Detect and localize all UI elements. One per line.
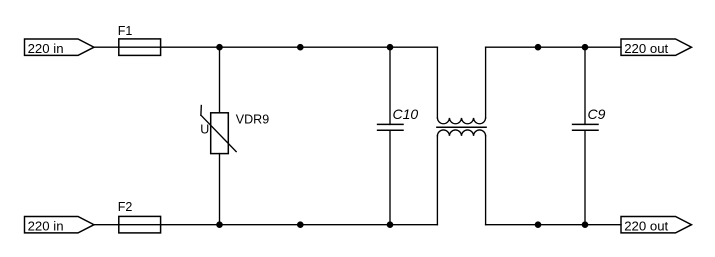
wire bottom right: joint to C9 junction xyxy=(538,224,585,226)
junction dot bottom right joint xyxy=(535,221,542,228)
wire bottom right: choke to joint xyxy=(486,224,538,226)
inductor top winding xyxy=(437,118,485,124)
junction dot top at C10 xyxy=(387,44,394,51)
wire: top winding left leg xyxy=(436,47,438,118)
wire top right: C9 junction to connector xyxy=(585,46,621,48)
capacitor C10 bottom plate xyxy=(378,129,403,131)
inductor bottom winding xyxy=(437,130,485,136)
wire top: mid joint to C10 junction xyxy=(299,46,390,48)
svg-text:220 out: 220 out xyxy=(624,218,668,233)
svg-text:C10: C10 xyxy=(393,106,419,122)
wire: bottom winding left leg xyxy=(436,136,438,225)
capacitor C9 top plate xyxy=(573,123,598,125)
wire: top wire down to C10 xyxy=(389,47,391,124)
connector "220 out" top-right xyxy=(621,39,692,56)
wire bottom: F2 to VDR junction xyxy=(161,224,220,226)
varistor VDR9 diagonal xyxy=(201,115,236,151)
varistor VDR9 body xyxy=(211,113,229,154)
wire top: connector to F1 xyxy=(94,46,119,48)
svg-text:C9: C9 xyxy=(588,106,606,122)
capacitor C9 xyxy=(573,47,606,225)
wire bottom: C10 junction to choke xyxy=(390,224,437,226)
fuse F1 xyxy=(118,24,161,56)
junction dot top at VDR9 xyxy=(216,44,223,51)
svg-text:F2: F2 xyxy=(118,200,133,214)
wire top: VDR junction to mid joint xyxy=(220,46,300,48)
wire bottom: VDR junction to mid joint xyxy=(220,224,300,226)
wire: top winding right leg xyxy=(485,47,487,118)
junction dot bottom at VDR9 xyxy=(216,221,223,228)
svg-text:220 in: 220 in xyxy=(28,218,64,233)
junction dot bottom mid xyxy=(297,221,304,228)
wire top: C10 junction to choke xyxy=(390,46,437,48)
wire bottom: connector to F2 xyxy=(94,224,119,226)
wire: top wire down to VDR9 xyxy=(219,47,221,113)
svg-text:F1: F1 xyxy=(118,24,133,38)
wire bottom right: C9 junction to connector xyxy=(585,224,621,226)
capacitor C9 bottom plate xyxy=(573,129,598,131)
junction dot bottom at C9 xyxy=(582,221,589,228)
transformer L1 (common-mode choke) xyxy=(437,47,486,225)
wire bottom: mid joint to C10 junction xyxy=(299,224,390,226)
wire: VDR9 down to bottom wire xyxy=(219,154,221,225)
svg-text:220 in: 220 in xyxy=(28,41,64,56)
svg-text:U: U xyxy=(200,123,209,137)
wire: C10 down to bottom wire xyxy=(389,130,391,224)
capacitor C10 top plate xyxy=(378,123,403,125)
connector "220 out" bottom-right xyxy=(621,217,692,234)
wire top right: choke to joint xyxy=(486,46,538,48)
junction dot top at C9 xyxy=(582,44,589,51)
junction dot bottom at C10 xyxy=(387,221,394,228)
junction dot top mid xyxy=(297,44,304,51)
wire top right: joint to C9 junction xyxy=(538,46,585,48)
varistor VDR9 top tick xyxy=(200,106,202,116)
wire: bottom winding right leg xyxy=(485,136,487,225)
capacitor C10 xyxy=(378,47,419,225)
varistor VDR9 xyxy=(200,47,269,225)
connector "220 in" top-left xyxy=(25,39,95,56)
wire: C9 down to bottom wire xyxy=(584,130,586,224)
transformer core xyxy=(437,126,486,128)
svg-text:VDR9: VDR9 xyxy=(236,113,269,127)
wire: top wire down to C9 xyxy=(584,47,586,124)
connector "220 in" bottom-left xyxy=(25,217,95,234)
junction dot top right joint xyxy=(535,44,542,51)
wire top: F1 to VDR junction xyxy=(161,46,220,48)
svg-text:220 out: 220 out xyxy=(624,41,668,56)
fuse F2 xyxy=(118,200,161,233)
